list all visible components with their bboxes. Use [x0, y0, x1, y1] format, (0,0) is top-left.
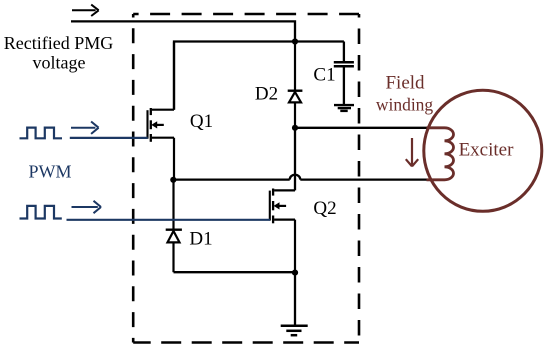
- ground under Q2: [281, 326, 308, 335]
- svg-text:Q2: Q2: [313, 198, 336, 219]
- PWM square wave 2: [20, 206, 62, 219]
- node A: Q1 source / D1 cathode / field winding bottom: [170, 177, 176, 183]
- diode D1: [166, 180, 182, 272]
- capacitor C1: [334, 42, 354, 105]
- hop: wire crossing without connection: [290, 175, 301, 180]
- diode D2: [288, 42, 303, 128]
- svg-text:voltage: voltage: [33, 53, 86, 73]
- svg-text:PWM: PWM: [28, 162, 71, 182]
- wire: D1 anode to ground rail: [174, 271, 296, 273]
- node B: D2 anode / Q2 drain / field winding top: [292, 125, 298, 131]
- svg-text:Rectified PMG: Rectified PMG: [4, 33, 114, 53]
- exciter machine circle: [424, 90, 542, 211]
- transistor Q1 (MOSFET): [148, 42, 175, 180]
- label: Rectified PMG voltage: [4, 33, 114, 73]
- wire: node B to field winding top: [295, 127, 428, 129]
- svg-text:Exciter: Exciter: [459, 140, 515, 161]
- inductor: exciter field winding coil: [427, 128, 454, 180]
- svg-text:winding: winding: [376, 95, 434, 115]
- arrow: field current direction (down): [406, 138, 418, 166]
- wire: PWM 1 to Q1 gate: [70, 137, 148, 139]
- wire: node B down to Q2 drain: [294, 128, 296, 191]
- arrow: PWM 2 into gate: [72, 201, 102, 213]
- arrow: input supply arrow: [72, 5, 99, 16]
- wire: junction down to ground: [294, 273, 296, 325]
- wire: top rail: [174, 42, 344, 110]
- svg-text:D2: D2: [255, 84, 278, 105]
- wire: PWM 2 to Q2 gate: [67, 219, 271, 221]
- node: junction top rail / input: [292, 38, 298, 44]
- svg-text:D1: D1: [189, 228, 212, 249]
- wire: rectified PMG input to top rail: [71, 21, 295, 41]
- node: Q2 source / D1 anode / ground junction: [292, 270, 298, 276]
- arrow: PWM 1 into gate: [71, 122, 99, 134]
- wire: hop to field winding bottom: [300, 178, 428, 180]
- label: Field winding: [376, 73, 434, 115]
- svg-text:Q1: Q1: [190, 111, 213, 132]
- dashed converter boundary box: [133, 14, 359, 343]
- PWM square wave 1: [20, 128, 63, 139]
- ground under C1: [334, 105, 354, 111]
- svg-text:C1: C1: [313, 65, 335, 86]
- wire: node A to hop (field winding bottom wire, left part): [174, 178, 290, 180]
- transistor Q2 (MOSFET): [270, 189, 295, 273]
- svg-text:Field: Field: [385, 73, 425, 94]
